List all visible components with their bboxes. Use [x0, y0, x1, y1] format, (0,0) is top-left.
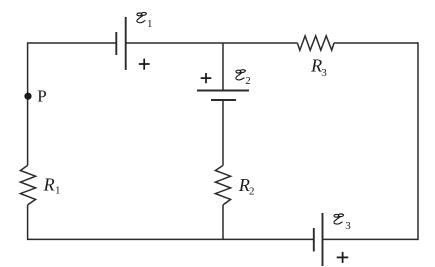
svg-text:3: 3 [345, 220, 351, 232]
resistor R2 zigzag [215, 165, 230, 205]
wire middle branch lower (R2 to bottom junction) [222, 205, 224, 240]
wire middle branch mid (E2 to R2) [222, 100, 224, 165]
battery E2 short plate (negative) [211, 99, 236, 101]
wire top-left segment [28, 42, 117, 44]
wire left side lower (R1 to bottom corner) [27, 205, 29, 240]
battery E3 short plate (negative) [313, 228, 315, 252]
svg-text:3: 3 [321, 67, 327, 79]
label script-E1 (EMF symbol) [137, 12, 147, 22]
plus sign of E2 [201, 73, 212, 83]
label script-E2 (EMF symbol) [236, 70, 246, 80]
wire top-middle segment (E1 to junction to R3) [126, 42, 298, 44]
svg-text:1: 1 [147, 18, 153, 30]
node P dot [24, 93, 31, 100]
resistor R3 zigzag [297, 36, 334, 50]
battery E1 long plate (positive) [125, 17, 127, 70]
plus sign of E3 [337, 252, 349, 263]
wire middle branch upper (top junction to E2) [222, 43, 224, 91]
wire bottom-right segment (corner to E3) [323, 238, 419, 240]
battery E2 long plate (positive) [197, 90, 249, 92]
svg-text:1: 1 [55, 185, 61, 197]
wire right side [417, 42, 419, 240]
battery E3 long plate (positive) [322, 213, 324, 266]
wire left side upper (corner to R1) [27, 42, 29, 165]
plus sign of E1 [139, 59, 150, 70]
svg-text:R: R [43, 175, 55, 195]
resistor R1 zigzag [20, 165, 35, 205]
battery E1 short plate (negative) [115, 32, 117, 55]
svg-text:2: 2 [245, 75, 251, 87]
wire top-right segment (R3 to corner) [334, 42, 418, 44]
wire bottom-middle segment (E3 to middle junction to left corner) [28, 238, 314, 240]
label script-E3 (EMF symbol) [334, 214, 344, 224]
svg-text:P: P [37, 86, 46, 105]
svg-text:2: 2 [249, 185, 255, 197]
